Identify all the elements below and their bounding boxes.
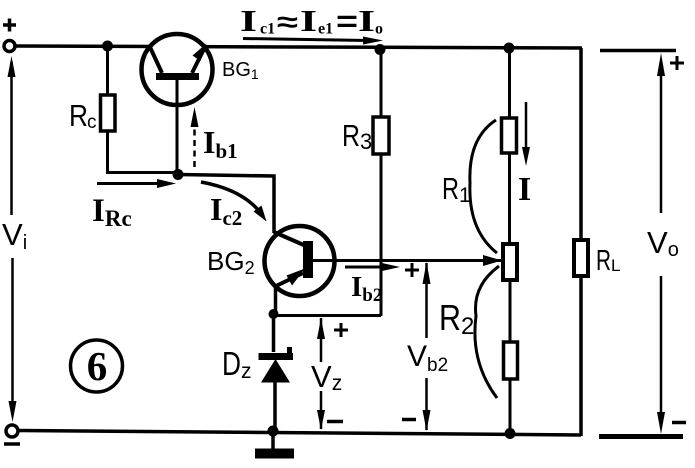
label I — [518, 171, 531, 208]
label Vi — [2, 217, 27, 254]
label Rc — [69, 98, 97, 133]
svg-text:e1: e1 — [318, 21, 333, 38]
svg-text:c1: c1 — [260, 21, 275, 38]
label Ic2 — [210, 191, 242, 230]
svg-text:R: R — [596, 245, 611, 277]
svg-text:R: R — [442, 171, 459, 206]
resistor RL — [574, 240, 588, 276]
svg-text:o: o — [375, 21, 383, 38]
wire bottom rail — [19, 431, 581, 436]
junction dot (Rc / top rail) — [102, 41, 113, 52]
Vz voltage indicator — [317, 318, 348, 430]
svg-text:I: I — [300, 3, 317, 38]
wire node to BG2 collector — [178, 175, 274, 234]
resistor R1 — [502, 48, 517, 245]
Vi voltage indicator arrows — [8, 56, 17, 422]
transistor BG2 — [265, 226, 335, 314]
wire right rail (RL branch down) — [579, 48, 583, 436]
plus sign (Vb2 top) — [405, 263, 419, 277]
node BG2 emitter — [269, 309, 279, 319]
wire emitter node to R3 bottom — [274, 314, 382, 317]
potentiometer tap box — [503, 244, 517, 342]
Vo voltage indicator — [657, 53, 665, 434]
label Vz — [311, 359, 342, 395]
svg-text:D: D — [222, 345, 241, 382]
svg-text:R: R — [69, 98, 88, 133]
junction dot (divider / top rail) — [504, 43, 515, 54]
arrow I (divider current) — [522, 102, 530, 166]
resistor Rc — [101, 46, 179, 173]
svg-text:I: I — [240, 3, 257, 38]
label BG2 — [207, 246, 255, 278]
junction dot (Dz / bottom rail) — [268, 426, 279, 437]
terminal input - (bottom-left) — [4, 425, 20, 444]
svg-text:R: R — [439, 297, 461, 338]
junction dot (divider / bottom rail) — [505, 428, 516, 439]
node base of BG1 — [173, 169, 184, 180]
svg-text:I: I — [518, 171, 531, 208]
title Ic1 = Ie1 = Io — [240, 3, 383, 45]
resistor R3 — [373, 50, 389, 316]
zener diode Dz — [259, 314, 294, 431]
svg-text:I: I — [358, 3, 375, 38]
label BG1 — [222, 59, 259, 82]
output stub top — [600, 49, 676, 53]
label RL — [596, 245, 620, 277]
svg-text:R: R — [342, 118, 360, 153]
output - sign — [672, 421, 686, 425]
label IRc — [92, 193, 132, 231]
figure number 6 (circled) — [71, 340, 123, 392]
svg-text:L: L — [611, 256, 620, 275]
label R2 — [439, 297, 474, 340]
label Dz — [222, 345, 252, 383]
svg-text:=: = — [336, 5, 358, 38]
svg-text:2: 2 — [461, 313, 474, 340]
wire BG2 base to divider tap — [334, 255, 502, 266]
svg-text:1: 1 — [459, 184, 471, 207]
label R3 — [342, 118, 372, 154]
label Vb2 — [407, 340, 448, 376]
arrow Ic2 (curved) — [201, 182, 267, 222]
svg-text:c: c — [87, 112, 97, 133]
terminal input + (top-left) — [3, 19, 16, 52]
junction dot (R3 / top rail) — [375, 44, 386, 55]
arrow Ib2 — [345, 263, 400, 271]
output stub bottom — [599, 434, 683, 439]
Vb2 voltage indicator — [402, 262, 431, 431]
label Ib1 — [203, 124, 238, 163]
label Vo — [647, 225, 679, 261]
brace R2 — [475, 266, 499, 398]
svg-text:3: 3 — [360, 129, 372, 154]
arrow Ib1 (dashed) — [191, 107, 199, 167]
transistor BG1 — [142, 34, 213, 170]
svg-text:≈: ≈ — [277, 7, 298, 38]
svg-text:z: z — [241, 360, 252, 383]
resistor R2 — [504, 342, 518, 434]
arrow IRc — [97, 179, 176, 188]
output + sign — [670, 56, 684, 70]
brace R1 — [470, 120, 497, 253]
wire top rail — [16, 46, 582, 48]
ground — [255, 431, 294, 454]
label Ib2 — [351, 271, 382, 306]
svg-text:6: 6 — [87, 343, 108, 389]
label R1 — [442, 171, 471, 207]
